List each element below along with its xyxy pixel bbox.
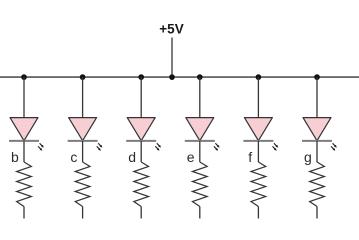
resistor (branch g) bbox=[310, 162, 325, 207]
resistor (branch c) bbox=[75, 162, 90, 207]
resistor (branch f) bbox=[251, 162, 266, 207]
wire (LED c cathode to resistor) bbox=[82, 141, 84, 162]
resistor (branch e) bbox=[192, 162, 207, 207]
wire (rail to LED g anode) bbox=[316, 77, 318, 118]
svg-text:d: d bbox=[128, 149, 136, 165]
wire (resistor c to bottom) bbox=[82, 207, 84, 219]
junction (rail to branch g) bbox=[314, 74, 320, 80]
wire: +5V rail bbox=[0, 76, 359, 78]
LED c bbox=[68, 118, 103, 151]
wire (resistor e to bottom) bbox=[199, 207, 201, 219]
wire (rail to LED f anode) bbox=[257, 77, 259, 118]
junction (rail to branch f) bbox=[256, 74, 262, 80]
wire (rail to LED b anode) bbox=[23, 77, 25, 118]
wire (LED f cathode to resistor) bbox=[257, 141, 259, 162]
resistor (branch d) bbox=[134, 162, 149, 207]
LED e bbox=[185, 118, 220, 151]
svg-text:e: e bbox=[187, 149, 195, 165]
LED b bbox=[9, 118, 44, 151]
wire (+5V feed) bbox=[171, 38, 173, 78]
junction (rail to branch c) bbox=[80, 74, 86, 80]
wire (rail to LED e anode) bbox=[199, 77, 201, 118]
LED d bbox=[126, 118, 161, 151]
wire (resistor b to bottom) bbox=[23, 207, 25, 219]
svg-text:f: f bbox=[248, 149, 252, 165]
wire (resistor g to bottom) bbox=[316, 207, 318, 219]
junction (rail to branch e) bbox=[197, 74, 203, 80]
svg-text:c: c bbox=[70, 149, 77, 165]
wire (rail to LED d anode) bbox=[140, 77, 142, 118]
svg-text:b: b bbox=[11, 149, 19, 165]
wire (LED e cathode to resistor) bbox=[199, 141, 201, 162]
wire (LED d cathode to resistor) bbox=[140, 141, 142, 162]
wire (resistor f to bottom) bbox=[257, 207, 259, 219]
wire (rail to LED c anode) bbox=[82, 77, 84, 118]
wire (resistor d to bottom) bbox=[140, 207, 142, 219]
wire (LED g cathode to resistor) bbox=[316, 141, 318, 162]
LED g bbox=[302, 118, 337, 151]
junction (rail to branch b) bbox=[21, 74, 27, 80]
resistor (branch b) bbox=[17, 162, 32, 207]
LED f bbox=[243, 118, 278, 151]
junction (rail to branch d) bbox=[138, 74, 144, 80]
junction (+5V feed to rail) bbox=[169, 74, 175, 80]
wire (LED b cathode to resistor) bbox=[23, 141, 25, 162]
svg-text:g: g bbox=[304, 149, 312, 165]
svg-text:+5V: +5V bbox=[159, 22, 183, 37]
